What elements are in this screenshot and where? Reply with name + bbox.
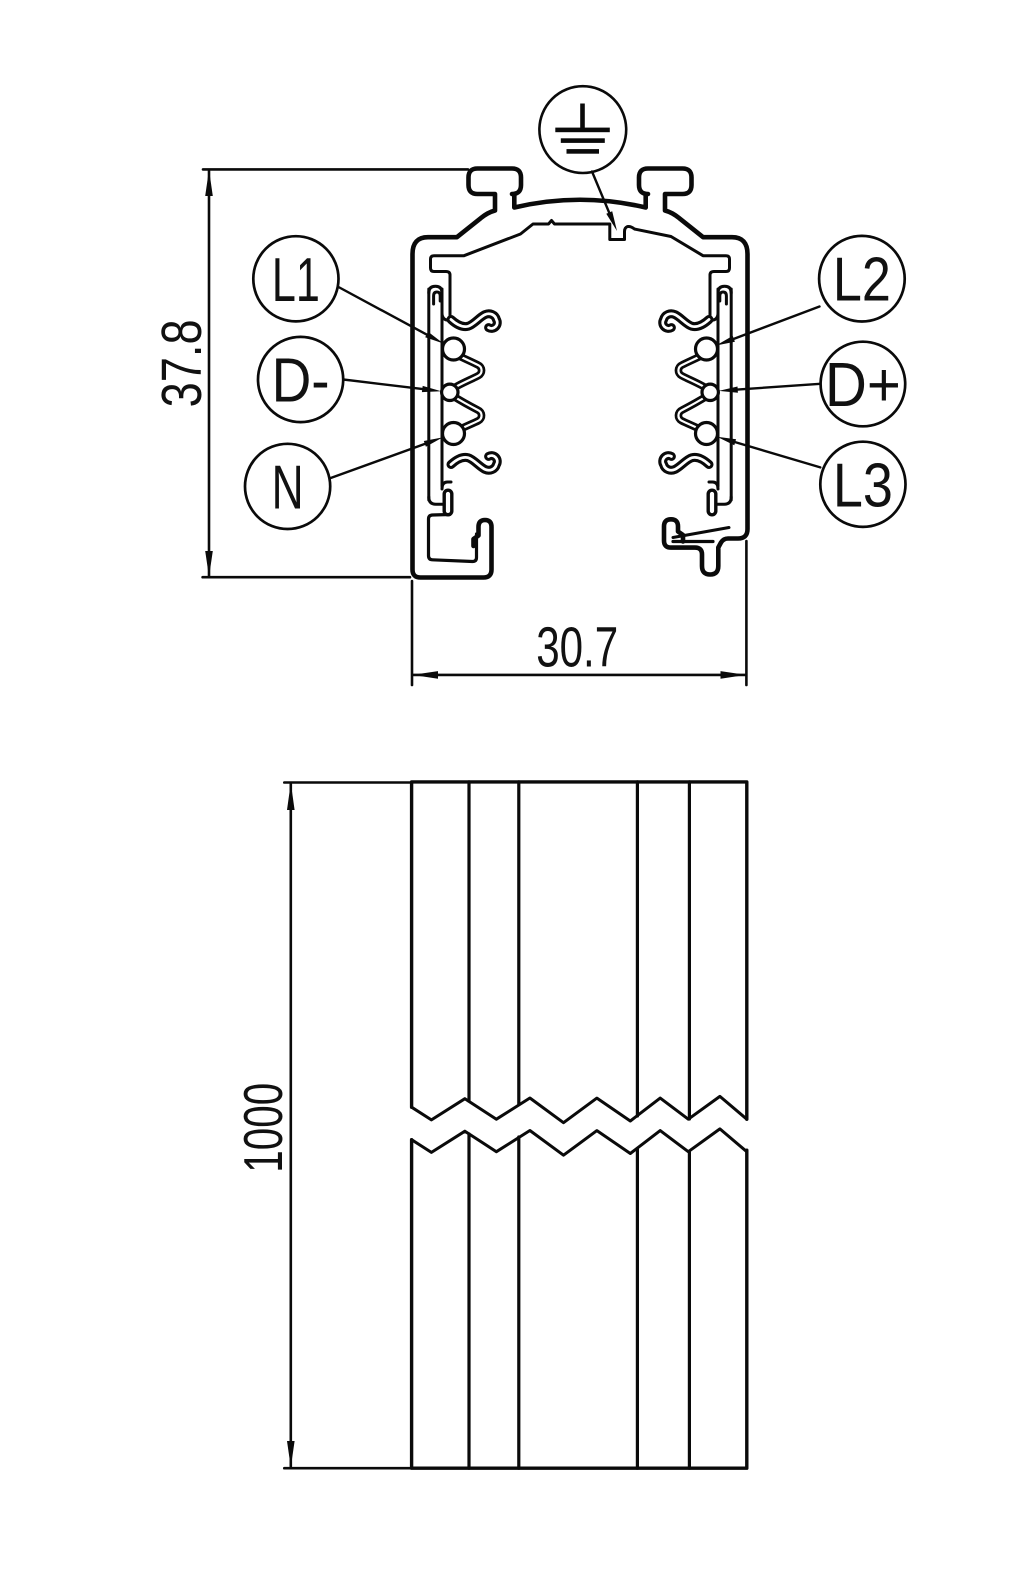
right interior (mirror of left) xyxy=(663,286,731,511)
svg-text:1000: 1000 xyxy=(232,1083,294,1173)
right foot inner pocket xyxy=(673,540,713,543)
extension line bottom xyxy=(203,576,410,579)
extension line bottom xyxy=(284,1467,411,1470)
dimension 1000 xyxy=(232,783,411,1469)
dimension line xyxy=(414,674,746,677)
leader L1 xyxy=(339,287,444,344)
conductor circle bottom xyxy=(443,423,465,445)
white cores xyxy=(451,314,497,470)
dimension line xyxy=(289,784,292,1467)
bottom view rectangle (upper part) xyxy=(412,782,747,1119)
label circle L3 xyxy=(820,442,905,527)
left interior insulator liner and contacts xyxy=(429,286,497,511)
liner top fold cap xyxy=(429,286,442,293)
extension line top xyxy=(203,168,468,171)
insulator web folded strip: thick pass xyxy=(453,354,482,433)
svg-text:L1: L1 xyxy=(272,246,320,315)
left foot inner pocket xyxy=(429,515,477,562)
leader line from ground symbol to earth notch xyxy=(592,172,617,232)
right interior bottom lip xyxy=(673,528,729,538)
liner bottom finger xyxy=(443,494,454,511)
leader N xyxy=(330,437,443,478)
bottom view rectangle (lower part) xyxy=(412,1140,747,1469)
profile outer silhouette (track cross-section) xyxy=(413,169,748,578)
arm top (L1/L2 side) xyxy=(451,314,497,329)
svg-text:N: N xyxy=(272,453,304,522)
liner shelf under top fold xyxy=(442,313,453,320)
conductor circle top xyxy=(443,338,465,360)
break zigzag lower xyxy=(412,1129,747,1155)
extension line top xyxy=(284,781,411,784)
arrow up xyxy=(205,170,213,196)
inner top surface with earth notch xyxy=(431,221,730,318)
arm bottom (N/L3 side) xyxy=(451,456,497,471)
arrow right xyxy=(721,671,747,679)
conductor circle middle xyxy=(442,384,458,400)
leader L2 xyxy=(716,307,820,346)
svg-text:30.7: 30.7 xyxy=(536,615,618,679)
liner bottom fold cap xyxy=(442,482,451,489)
contact arms thick pass xyxy=(451,314,497,470)
arrow down xyxy=(287,1441,295,1468)
leader L3 xyxy=(717,437,820,468)
arrow left xyxy=(412,671,438,679)
dimension line xyxy=(208,171,211,576)
dimension 37.8 xyxy=(150,169,468,577)
arrow up xyxy=(287,783,295,810)
label circle D- xyxy=(258,337,343,422)
label circle N xyxy=(245,444,330,529)
svg-text:D-: D- xyxy=(272,347,330,416)
leader D+ xyxy=(719,384,821,393)
bottom view inner verticals lower xyxy=(469,1134,689,1468)
svg-text:D+: D+ xyxy=(825,351,901,420)
ground symbol circle (earth) xyxy=(539,86,626,173)
label circle L1 xyxy=(253,236,338,321)
dimension 30.7 xyxy=(412,541,746,685)
bottom view inner verticals upper xyxy=(469,782,689,1119)
label circle D+ xyxy=(821,342,906,427)
break zigzag upper xyxy=(412,1096,747,1122)
arrow down xyxy=(205,551,213,577)
liner wall verticals xyxy=(427,289,430,500)
svg-text:L3: L3 xyxy=(833,451,893,520)
svg-text:37.8: 37.8 xyxy=(150,319,214,407)
extension line left xyxy=(411,581,414,685)
leader D- xyxy=(343,380,441,393)
label circle L2 xyxy=(819,236,905,322)
extension line right xyxy=(745,541,748,685)
svg-text:L2: L2 xyxy=(833,246,891,315)
